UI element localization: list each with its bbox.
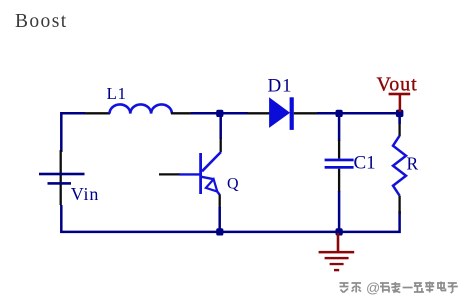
power port Vout xyxy=(377,74,418,112)
node: junction top of capacitor xyxy=(336,110,343,117)
capacitor C1 xyxy=(325,159,354,169)
inductor L1 xyxy=(110,104,172,113)
node: output junction Vout xyxy=(396,110,404,118)
svg-text:C1: C1 xyxy=(354,152,376,173)
svg-text:Vout: Vout xyxy=(377,74,418,96)
wire: output junction to resistor xyxy=(398,113,401,124)
wire: diode to capacitor junction xyxy=(317,112,338,115)
pin: R top pin xyxy=(398,118,400,136)
wire: capacitor bottom vertical xyxy=(338,191,341,232)
pin: transistor emitter pin xyxy=(219,195,221,209)
wire: emitter to bottom wire xyxy=(218,207,221,232)
battery Vin xyxy=(39,173,85,185)
wire: left rail lower and bottom-left corner xyxy=(61,205,219,232)
pin: C1 bottom pin xyxy=(338,169,340,192)
wire: capacitor junction to output junction xyxy=(340,112,400,115)
wire: collector vertical xyxy=(219,113,222,139)
pin: transistor collector pin xyxy=(220,138,222,152)
svg-text:Boost: Boost xyxy=(15,11,68,32)
pin: C1 top pin xyxy=(338,140,340,159)
wire: junction to diode anode xyxy=(221,112,248,115)
svg-text:Q: Q xyxy=(227,175,239,192)
node: junction top of transistor xyxy=(216,110,223,117)
wire: bottom-right corner up to resistor xyxy=(340,211,400,232)
pin: transistor base pin xyxy=(159,173,180,175)
svg-text:R: R xyxy=(407,153,419,173)
svg-text:D1: D1 xyxy=(268,75,293,96)
svg-text:Vin: Vin xyxy=(71,184,99,204)
svg-text:L1: L1 xyxy=(107,84,127,103)
svg-text:@: @ xyxy=(366,280,380,296)
pin: L1 right pin xyxy=(171,112,191,114)
pin: battery top pin xyxy=(60,150,62,205)
pin: D1 cathode pin xyxy=(294,112,318,114)
node: junction bottom of capacitor / ground xyxy=(336,228,343,235)
transistor Q xyxy=(201,152,221,195)
resistor R xyxy=(393,136,406,196)
diode D1 xyxy=(270,97,294,130)
wire: top-left corner and left rail upper xyxy=(61,113,85,152)
wire: bottom segment to ground junction xyxy=(221,231,338,234)
pin: R bottom pin xyxy=(398,196,400,214)
wire: capacitor top vertical xyxy=(338,113,341,141)
wire: top segment to collector junction xyxy=(191,112,219,115)
pin: L1 left pin xyxy=(85,112,110,114)
ground xyxy=(319,233,355,271)
pin: D1 anode pin xyxy=(247,112,270,114)
watermark: 头条 @和我一起学电子 xyxy=(340,280,460,296)
node: junction bottom of transistor xyxy=(216,228,223,235)
